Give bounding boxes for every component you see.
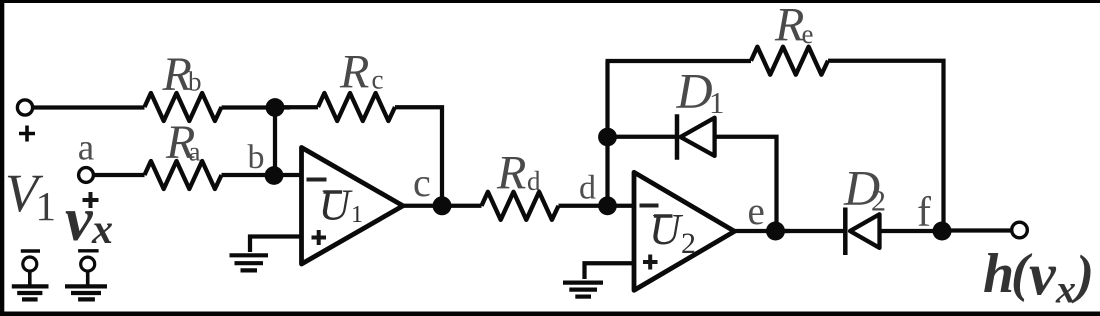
svg-text:e: e bbox=[802, 19, 814, 49]
svg-text:f: f bbox=[917, 190, 931, 236]
svg-text:b: b bbox=[248, 139, 265, 176]
resistor Rc bbox=[318, 93, 395, 121]
terminal V1 plus bbox=[17, 100, 35, 142]
wire Ra to U1 minus input bbox=[222, 173, 302, 177]
node d bbox=[598, 196, 617, 215]
svg-text:v: v bbox=[65, 186, 94, 254]
svg-text:R: R bbox=[496, 147, 526, 200]
svg-text:a: a bbox=[189, 137, 201, 167]
label V1 bbox=[5, 163, 56, 229]
svg-text:b: b bbox=[188, 67, 202, 97]
node junction above d bbox=[598, 128, 617, 147]
svg-text:2: 2 bbox=[681, 227, 696, 260]
label D2 bbox=[843, 160, 886, 218]
svg-text:1: 1 bbox=[351, 202, 363, 228]
U2 plus sign bbox=[643, 255, 658, 270]
svg-text:D: D bbox=[676, 63, 713, 119]
wire a to Ra bbox=[93, 173, 144, 177]
wire node d to U2 minus input bbox=[608, 204, 635, 208]
wire Rc to feedback corner bbox=[395, 107, 442, 206]
svg-text:a: a bbox=[78, 128, 94, 169]
wire Re to corner down to node f bbox=[828, 61, 944, 231]
label Rc bbox=[339, 46, 384, 99]
svg-text:h: h bbox=[983, 243, 1014, 305]
diode D2 bbox=[845, 208, 879, 256]
label Ra bbox=[165, 116, 201, 169]
svg-text:R: R bbox=[774, 0, 804, 52]
resistor Rd bbox=[482, 192, 559, 220]
U2 minus sign bbox=[640, 204, 659, 208]
label Rd bbox=[496, 147, 541, 200]
wire node e to D2 bbox=[776, 229, 846, 233]
label Re bbox=[774, 0, 814, 52]
node junction Rb/Rc bbox=[266, 98, 285, 117]
wire U2 output to node e bbox=[735, 229, 791, 233]
wire U1 output to node c bbox=[403, 204, 450, 208]
ground U2 bbox=[563, 283, 603, 297]
ground U1 bbox=[230, 255, 269, 270]
wire Rb to node1 bbox=[222, 105, 291, 109]
border frame bottom bbox=[0, 312, 1100, 316]
node e bbox=[766, 222, 785, 241]
wire V1 to Rb bbox=[33, 105, 145, 109]
svg-text:v: v bbox=[1029, 242, 1057, 308]
resistor Ra bbox=[145, 161, 222, 189]
svg-text:c: c bbox=[372, 65, 384, 95]
op-amp U1 bbox=[302, 148, 404, 265]
resistor Re bbox=[751, 47, 828, 75]
wire top feedback to Re bbox=[606, 59, 752, 63]
diode D1 bbox=[677, 114, 715, 160]
svg-text:2: 2 bbox=[871, 185, 886, 218]
border frame left bbox=[0, 0, 4, 316]
svg-text:d: d bbox=[527, 166, 541, 196]
wire D2 to node f bbox=[880, 229, 943, 233]
terminal a (vx plus) bbox=[79, 168, 99, 208]
terminal output bbox=[1012, 222, 1028, 238]
wire node f to output terminal bbox=[942, 228, 1011, 232]
U1 plus sign bbox=[312, 230, 327, 245]
wire node c to Rd bbox=[442, 204, 482, 208]
wire node d up to top feedback bbox=[605, 61, 609, 206]
node b bbox=[265, 166, 284, 185]
wire U1 plus input to ground bbox=[250, 237, 302, 253]
wire D1 to corner down to node e bbox=[715, 137, 777, 231]
svg-text:d: d bbox=[579, 170, 596, 207]
U1 minus sign bbox=[307, 178, 327, 182]
wire U2 plus input to ground bbox=[585, 263, 635, 279]
wire node1 down to node b bbox=[273, 108, 277, 176]
label Rb bbox=[162, 48, 202, 101]
wire junction to D1 bbox=[608, 135, 678, 139]
wire Rd to node d bbox=[559, 204, 608, 208]
node f bbox=[933, 222, 952, 241]
svg-text:1: 1 bbox=[36, 183, 57, 229]
label U1 bbox=[319, 181, 364, 230]
svg-text:c: c bbox=[413, 160, 431, 205]
svg-text:x: x bbox=[1055, 267, 1076, 312]
svg-text:U: U bbox=[649, 205, 684, 254]
svg-text:U: U bbox=[319, 181, 354, 230]
svg-text:x: x bbox=[91, 207, 113, 253]
ground terminal V1 minus bbox=[12, 251, 49, 299]
svg-text:e: e bbox=[748, 190, 765, 233]
border frame top bbox=[0, 0, 1100, 3]
label h(vx) bbox=[983, 242, 1094, 312]
ground terminal vx minus bbox=[65, 251, 107, 300]
wire node1 to Rc bbox=[275, 105, 318, 109]
label D1 bbox=[676, 63, 725, 121]
svg-text:1: 1 bbox=[709, 85, 725, 120]
node c bbox=[433, 196, 452, 215]
label U2 bbox=[649, 205, 696, 260]
resistor Rb bbox=[145, 93, 222, 121]
svg-text:R: R bbox=[339, 46, 369, 99]
op-amp U2 bbox=[634, 172, 735, 290]
label vx bbox=[65, 186, 113, 254]
